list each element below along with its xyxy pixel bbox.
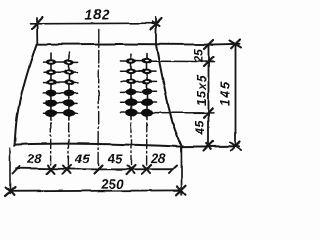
svg-text:250: 250 xyxy=(100,176,124,191)
svg-text:28: 28 xyxy=(26,151,42,166)
svg-text:145: 145 xyxy=(219,80,233,107)
svg-text:45: 45 xyxy=(74,151,90,166)
svg-text:45: 45 xyxy=(107,151,123,166)
svg-text:25: 25 xyxy=(192,49,206,64)
svg-text:28: 28 xyxy=(150,151,166,166)
svg-text:45: 45 xyxy=(193,120,207,136)
svg-text:15x5: 15x5 xyxy=(195,74,209,106)
svg-text:182: 182 xyxy=(84,6,110,22)
